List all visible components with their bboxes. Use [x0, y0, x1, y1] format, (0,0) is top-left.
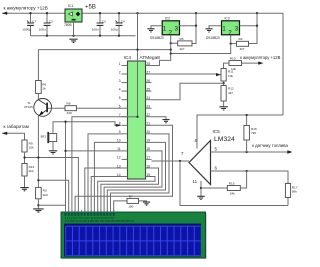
junction IC2 DQ [170, 42, 172, 44]
capacitor C7 [30, 13, 32, 36]
wire IC4 pin15 to LCD pin11 [98, 177, 155, 213]
svg-text:к габаритам: к габаритам [4, 124, 29, 129]
resistor R8 330 [65, 106, 77, 111]
wire IC2 pin3 to +5V [179, 25, 196, 27]
svg-text:10k: 10k [228, 74, 233, 78]
svg-text:+5В: +5В [85, 5, 96, 11]
svg-text:ATMega8: ATMega8 [140, 55, 161, 61]
junction IC1 gnd [72, 35, 74, 37]
junction R4 pullup rail [256, 12, 258, 14]
wire R16 top [246, 115, 248, 126]
pin 2 IC4 [122, 73, 128, 75]
wire IC4 pin19 to LCD pin14 [107, 142, 165, 212]
transistor T1 KT315 [34, 99, 52, 117]
wire buzzer branch column to LCD pin1 [65, 122, 67, 213]
pin 19 IC4 [146, 141, 152, 143]
svg-text:R5: R5 [180, 37, 184, 41]
junction R15 pin6 [245, 170, 247, 172]
svg-text:100µ: 100µ [111, 28, 118, 32]
svg-text:DS18B20: DS18B20 [206, 36, 220, 40]
wire +5V branch line [137, 13, 139, 49]
svg-text:7k5: 7k5 [251, 131, 256, 135]
wire +5V rail [82, 13, 283, 115]
svg-text:КТ315: КТ315 [24, 105, 33, 109]
wire R10 to +12V arrow [242, 62, 262, 64]
voltage regulator IC1 7805 [65, 9, 82, 22]
svg-text:330: 330 [67, 111, 72, 115]
wire R3 to ground [37, 199, 39, 209]
pin 16 IC4 [146, 167, 152, 169]
wire ground rail top [31, 35, 136, 37]
junction R16 fuel [245, 151, 247, 153]
junction IC3 pin3 [256, 25, 258, 27]
wire BF1 to IC4 pin8 [53, 122, 116, 134]
svg-text:2k0: 2k0 [43, 193, 48, 197]
wire R17 bottom [287, 198, 289, 206]
svg-text:22: 22 [146, 113, 150, 117]
pin 9 IC4 [122, 133, 128, 135]
svg-text:56k: 56k [292, 190, 297, 194]
pin 13 IC4 [122, 167, 128, 169]
junction DQ bus [170, 52, 172, 54]
pin 23 IC4 [146, 107, 152, 109]
pin 11 IC4 [122, 150, 128, 152]
svg-text:24: 24 [146, 96, 150, 100]
svg-text:26: 26 [146, 79, 150, 83]
resistor R10 10k [229, 61, 242, 66]
pin 15 IC4 [146, 176, 152, 178]
junction C4 gnd [118, 35, 120, 37]
junction LCD VSS ground [37, 204, 39, 206]
wire IC3 pin1 to ground [209, 26, 222, 29]
resistor R9 10k [22, 140, 27, 152]
svg-text:1000µ: 1000µ [22, 28, 31, 32]
wire R8 to IC4 pin6 [77, 107, 122, 109]
junction C2 rail [46, 12, 48, 14]
junction pin7 VCC inside IC [136, 116, 138, 118]
svg-text:1: 1 [119, 62, 121, 66]
pin 20 IC4 [146, 133, 152, 135]
wire R15 to pin11 node [201, 187, 227, 189]
svg-text:100n: 100n [39, 28, 46, 32]
ground IC5 pin11 [197, 196, 205, 199]
wire R9 to R13 [24, 152, 26, 164]
wire IC4 pin10 to LCD pin10 [94, 142, 121, 212]
svg-text:IC3: IC3 [225, 17, 230, 21]
buzzer BF1 [47, 132, 49, 143]
wire +12V supply line to pin4 [197, 115, 283, 149]
svg-text:R4: R4 [239, 37, 243, 41]
junction contrast tap [37, 179, 39, 181]
wire R6 top lead [37, 50, 39, 81]
junction output feedback [179, 160, 181, 162]
svg-text:1: 1 [163, 25, 167, 32]
resistor R12 4k7 [221, 86, 226, 102]
svg-text:16: 16 [146, 164, 150, 168]
pin 22 IC4 [146, 116, 152, 118]
wire R16 bottom [246, 140, 248, 152]
resistor R7 100 [127, 198, 139, 203]
junction C3 rail [99, 12, 101, 14]
wire LCD pin16 to R7 [114, 201, 127, 213]
wire T1 base [48, 107, 65, 109]
wire IC3 pin2 DQ [231, 35, 237, 44]
svg-text:23: 23 [146, 105, 150, 109]
wire 1-wire DQ bus to IC4 pin28 [171, 44, 231, 54]
svg-text:7805: 7805 [64, 23, 72, 27]
svg-text:C7: C7 [32, 19, 36, 23]
junction R5 pullup rail [195, 12, 197, 14]
svg-text:1 2 3 4 5 6 7 8 9 10 11 12 13: 1 2 3 4 5 6 7 8 9 10 11 12 13 14 15 16 1… [65, 217, 115, 220]
pin 7 IC4 [122, 116, 128, 118]
wire BF1 bottom [52, 142, 54, 151]
junction +5V drop rail [136, 12, 138, 14]
wire +12V rail left [2, 12, 65, 14]
junction divider tap [222, 82, 224, 84]
wire sense line to LCD pin5 [25, 158, 79, 213]
pin 3 IC4 [122, 82, 128, 84]
LCD display glass [65, 224, 201, 256]
microcontroller IC4 ATMega8 [128, 61, 146, 179]
wire IC4 pin13 to LCD pin7 [85, 168, 122, 213]
wire IC4 pin14 to LCD pin9 [91, 177, 121, 213]
svg-text:4k7: 4k7 [240, 47, 245, 51]
pin 24 IC4 [146, 99, 152, 101]
wire feedback loop [180, 161, 288, 206]
svg-text:25: 25 [146, 87, 150, 91]
svg-text:3: 3 [119, 79, 121, 83]
ground R7 [143, 202, 150, 205]
wire IC4 pin7 down to LCD pin3 [72, 117, 138, 213]
wire IC2 pin1 to ground [151, 26, 162, 29]
svg-text:к аккумулятору +12В: к аккумулятору +12В [240, 55, 281, 60]
wire IC4 pin20 to LCD pin15 [111, 134, 170, 213]
wire LCD VO contrast [38, 180, 68, 212]
svg-text:1: 1 [222, 25, 226, 32]
capacitor C4 [118, 13, 120, 36]
junction C7 rail [29, 12, 31, 14]
resistor R13 2k2 [22, 164, 27, 177]
svg-text:100: 100 [128, 204, 133, 208]
op-amp IC5 LM324 [189, 141, 211, 185]
wire IC4 pin21 to LCD pin4 [75, 125, 172, 212]
arrow gabarity left [2, 132, 7, 135]
pin 1 IC4 [122, 65, 128, 67]
ground IC3 [205, 29, 212, 32]
pin 4 IC4 [122, 90, 128, 92]
wire IC4 pin11 to LCD pin1 [66, 150, 122, 152]
wire T1 collector [37, 93, 39, 99]
svg-text:DS18B20: DS18B20 [150, 36, 164, 40]
svg-text:11: 11 [193, 179, 198, 184]
svg-text:R10: R10 [230, 56, 236, 60]
resistor R3 2k0 [36, 187, 42, 198]
junction +5V branch [136, 48, 138, 50]
wire IC4 pin18 to LCD pin13 [104, 151, 162, 213]
pin 28 IC4 [146, 65, 152, 67]
ground IC2 [147, 29, 154, 32]
pin 21 IC4 [146, 124, 152, 126]
svg-text:к аккумулятору +12В: к аккумулятору +12В [4, 5, 48, 10]
pin 12 IC4 [122, 158, 128, 160]
temperature sensor IC3 DS18B20 [222, 21, 240, 35]
LCD pin stubs [66, 210, 114, 213]
svg-text:IC1: IC1 [68, 4, 74, 8]
svg-text:C2: C2 [49, 19, 53, 23]
svg-text:18: 18 [146, 147, 150, 151]
ground R12 [219, 107, 227, 110]
junction pin11 R15 [200, 187, 202, 189]
wire R11 to R12 [223, 81, 225, 86]
svg-text:3: 3 [235, 25, 239, 32]
wire ground to LCD pin1 [38, 204, 65, 206]
svg-text:10k: 10k [29, 146, 34, 150]
svg-text:12: 12 [117, 156, 121, 160]
pin 27 IC4 [146, 73, 152, 75]
wire R11 wiper to IC4 pin27 [152, 73, 217, 75]
svg-text:2: 2 [119, 70, 121, 74]
junction C2 gnd [46, 35, 48, 37]
pin 26 IC4 [146, 82, 152, 84]
svg-text:BF1: BF1 [41, 134, 47, 138]
junction buzzer column [64, 121, 66, 123]
svg-text:5: 5 [119, 96, 121, 100]
junction C4 rail [118, 12, 120, 14]
wire +5V branch through IC to pin7 [137, 50, 139, 117]
wire R12 to ground [223, 101, 225, 107]
svg-text:VSS VDD VO RS RW E DB0 DB1 DB2: VSS VDD VO RS RW E DB0 DB1 DB2 DB3 DB4 D… [65, 220, 135, 223]
wire IC4 pin16 to LCD pin12 [101, 168, 159, 213]
wire pin11 to ground [200, 181, 202, 196]
junction R9 R13 [23, 156, 25, 158]
svg-text:к датчику топлива: к датчику топлива [252, 143, 289, 148]
svg-text:IC5: IC5 [213, 129, 221, 134]
svg-text:3: 3 [175, 25, 179, 32]
svg-text:R15: R15 [229, 181, 235, 185]
svg-text:2k2: 2k2 [29, 169, 34, 173]
LCD pin pads [65, 213, 115, 216]
svg-text:27: 27 [146, 70, 150, 74]
junction IC2 pin3 [195, 25, 197, 27]
pin 18 IC4 [146, 150, 152, 152]
svg-text:IC4: IC4 [124, 55, 132, 61]
wire divider tap to IC4 pin24 [152, 83, 224, 100]
junction R16 supply [245, 114, 247, 116]
wire R13 to ground [24, 176, 26, 187]
junction branch DQ column [170, 48, 172, 50]
wire IC3 pin3 to +5V [240, 25, 258, 27]
junction C3 gnd [99, 35, 101, 37]
LCD module board [61, 212, 206, 258]
ground R3 [33, 209, 44, 212]
wire IC4 pin9 to LCD pin8 [88, 134, 122, 213]
wire T1 emitter [37, 116, 39, 188]
potentiometer R11 10k [221, 69, 226, 82]
svg-text:1k: 1k [42, 87, 46, 91]
svg-text:LM324: LM324 [214, 136, 235, 143]
svg-text:C4: C4 [121, 19, 125, 23]
ground R13 [20, 188, 28, 191]
svg-text:17: 17 [146, 156, 150, 160]
arrow into pin8 [116, 124, 121, 127]
wire pin5 fuel input [211, 151, 291, 153]
svg-text:20: 20 [146, 130, 150, 134]
wire IC4 pin22 to ground [152, 117, 167, 120]
svg-text:19: 19 [146, 139, 150, 143]
pin 8 IC4 [122, 124, 128, 126]
svg-text:21: 21 [146, 122, 150, 126]
wire R10 to R11 [224, 63, 230, 68]
wire pin6 feedback node [211, 171, 289, 184]
svg-text:R7: R7 [129, 194, 133, 198]
svg-text:4k7: 4k7 [180, 47, 185, 51]
LCD module shadow [62, 213, 207, 259]
resistor R5 4k7 pullup [178, 41, 192, 46]
svg-text:4k7: 4k7 [228, 91, 233, 95]
wire IC1 ground lead [73, 22, 75, 36]
svg-text:R8: R8 [67, 101, 71, 105]
wire IC2 pin2 DQ [171, 35, 178, 44]
svg-text:15: 15 [146, 173, 150, 177]
capacitor C2 [46, 13, 48, 36]
svg-text:28: 28 [146, 62, 150, 66]
wire R7 to ground [139, 201, 147, 202]
resistor R17 56k [285, 184, 290, 198]
svg-text:C3: C3 [102, 19, 106, 23]
ground BF1 [49, 151, 57, 154]
arrow input left [2, 12, 7, 15]
ground IC1 [69, 39, 77, 42]
capacitor C3 [99, 13, 101, 36]
pin 6 IC4 [122, 107, 128, 109]
resistor R15 24k [227, 186, 240, 191]
pin 17 IC4 [146, 158, 152, 160]
ground pin22 [162, 120, 169, 123]
resistor R4 4k7 pullup [237, 41, 249, 46]
pin 5 IC4 [122, 99, 128, 101]
wire pin7 output to IC4 pin17 [152, 160, 190, 162]
svg-text:100n: 100n [92, 28, 99, 32]
svg-text:IC2: IC2 [165, 17, 170, 21]
wire R15 to pin6 node [240, 171, 246, 188]
temperature sensor IC2 DS18B20 [162, 21, 179, 35]
pin 25 IC4 [146, 90, 152, 92]
pin 14 IC4 [122, 176, 128, 178]
junction pin11 column [64, 150, 66, 152]
wire gabarity [2, 133, 24, 140]
svg-text:4: 4 [119, 87, 121, 91]
svg-text:24k: 24k [230, 192, 235, 196]
junction T1 emitter [37, 156, 39, 158]
pin 10 IC4 [122, 141, 128, 143]
LCD character cell grid [65, 226, 201, 256]
resistor R16 7k5 [244, 126, 250, 141]
junction IC3 DQ [230, 42, 232, 44]
